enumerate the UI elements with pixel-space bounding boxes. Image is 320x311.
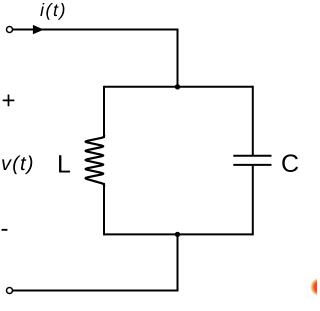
label - (voltage polarity) [2,229,8,231]
capacitor C plates [233,156,271,165]
label v(t) [2,156,32,175]
wire: top rail [104,86,253,88]
wire: bottom rail [104,233,253,235]
arrowhead for current i(t) [33,25,44,34]
wire: top lead from terminal to top-right corner, down to top rail [13,30,178,87]
wire: right rail upper segment [252,86,254,155]
wire: from bottom junction down and left to output terminal [13,234,178,290]
label + (voltage polarity) [3,95,15,107]
wire: left rail upper segment [103,86,105,138]
wire: left rail lower segment [103,183,105,235]
wire: right rail lower segment [252,166,254,236]
label C [282,154,298,172]
top input terminal [7,27,13,33]
node: top junction dot [175,84,180,89]
bottom output terminal [7,288,13,294]
label i(t) [40,3,64,20]
node: bottom junction dot [175,232,180,237]
inductor L coil [86,135,105,187]
label L [59,155,70,172]
